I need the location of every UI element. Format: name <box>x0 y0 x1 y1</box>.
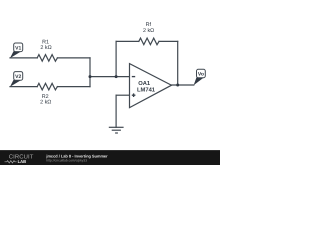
wire feedback left vertical <box>115 41 117 76</box>
wire feedback top left <box>116 40 139 42</box>
wire op-amp output <box>172 84 194 86</box>
resistor R1 <box>37 55 57 62</box>
wire feedback right vertical <box>177 41 179 85</box>
footer logo resistor zigzag <box>5 161 17 163</box>
wire non-inverting input to ground <box>115 95 117 127</box>
svg-text:2 kΩ: 2 kΩ <box>40 45 51 51</box>
flag Vo <box>194 69 206 85</box>
flag V2 <box>10 72 23 87</box>
resistor Rf <box>139 38 159 45</box>
svg-text:V1: V1 <box>15 46 21 52</box>
wire R1 to node <box>57 57 90 59</box>
junction node output <box>176 84 179 87</box>
wire op-amp non-inverting input <box>116 94 129 96</box>
svg-text:LM741: LM741 <box>137 88 156 94</box>
svg-text:V2: V2 <box>15 74 21 80</box>
wire joining vertical <box>89 58 91 87</box>
op-amp OA1 <box>130 64 172 108</box>
footer bar <box>0 150 220 165</box>
svg-text:LAB: LAB <box>18 159 27 164</box>
svg-text:OA1: OA1 <box>138 80 151 87</box>
svg-text:2 kΩ: 2 kΩ <box>143 28 154 34</box>
svg-text:2 kΩ: 2 kΩ <box>40 100 51 106</box>
svg-text:http://circuitlab.com/c/pky33: http://circuitlab.com/c/pky33 <box>46 159 87 163</box>
svg-text:Vo: Vo <box>198 72 204 78</box>
wire node to op-amp inverting input <box>90 76 130 78</box>
junction node A <box>89 75 92 78</box>
footer bar top edge <box>0 150 220 152</box>
wire Rf to output node <box>159 40 178 42</box>
resistor R2 <box>37 83 57 90</box>
wire V2 to R2 <box>10 86 37 88</box>
flag V1 <box>10 43 23 58</box>
ground <box>109 127 124 133</box>
wire V1 to R1 <box>10 57 37 59</box>
wire R2 to node <box>57 86 90 88</box>
junction node B <box>115 75 118 78</box>
